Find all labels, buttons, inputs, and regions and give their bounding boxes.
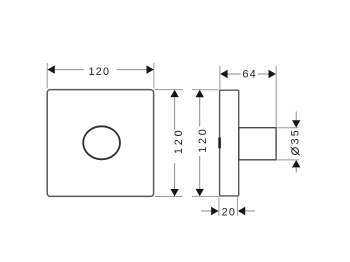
svg-text:120: 120 bbox=[173, 128, 185, 154]
svg-text:120: 120 bbox=[88, 66, 110, 78]
svg-text:120: 120 bbox=[197, 126, 209, 152]
svg-text:20: 20 bbox=[222, 206, 237, 218]
svg-text:35: 35 bbox=[290, 128, 302, 144]
svg-text:64: 64 bbox=[242, 69, 257, 81]
